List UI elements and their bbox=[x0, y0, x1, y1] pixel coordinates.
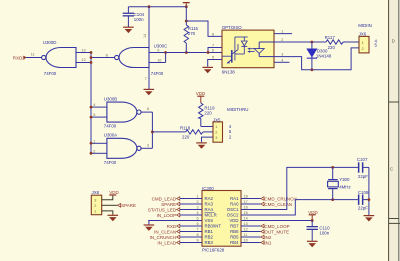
svg-text:15: 15 bbox=[244, 211, 248, 215]
IC right pin numbers 18-10 bbox=[244, 194, 248, 242]
power symbol VDD (MIDITHRU) bbox=[196, 91, 206, 103]
svg-text:220: 220 bbox=[328, 45, 336, 50]
svg-text:11: 11 bbox=[31, 52, 35, 56]
wire input tie vertical bbox=[165, 53, 167, 63]
diode D300 1N4148 bbox=[306, 42, 332, 70]
svg-text:U300A: U300A bbox=[104, 133, 117, 138]
svg-text:100n: 100n bbox=[134, 17, 144, 22]
capacitor C104 bbox=[123, 12, 145, 22]
node C108 right bbox=[368, 198, 371, 201]
svg-text:VDD: VDD bbox=[308, 210, 318, 215]
svg-text:RB3: RB3 bbox=[205, 240, 214, 245]
svg-text:IN2: IN2 bbox=[264, 235, 272, 240]
wire U300B input stub pin 4 bbox=[91, 106, 107, 108]
svg-text:3: 3 bbox=[281, 53, 283, 57]
connector JX5 MIDITHRU bbox=[213, 107, 249, 142]
svg-text:RA0: RA0 bbox=[230, 202, 239, 207]
svg-text:10: 10 bbox=[244, 238, 248, 242]
svg-text:12: 12 bbox=[81, 58, 85, 62]
optocoupler OPTOISO 6N138 bbox=[222, 25, 274, 74]
wire U300D input stub pin 13 bbox=[76, 52, 91, 54]
node rail/VDD/R115 bbox=[185, 5, 188, 8]
svg-text:2: 2 bbox=[197, 200, 199, 204]
node bus/pin4 bbox=[90, 106, 93, 109]
wire opto pin7 drop bbox=[208, 48, 222, 53]
wire U300A input stub pin 1 bbox=[91, 142, 107, 144]
wire U300D input stub pin 12 bbox=[76, 62, 91, 64]
node D300 cathode bbox=[311, 68, 314, 71]
svg-text:RA4: RA4 bbox=[205, 207, 214, 212]
svg-text:IN1: IN1 bbox=[264, 240, 272, 245]
power symbol VDD (IC) bbox=[308, 210, 318, 221]
port RXD2 bbox=[13, 55, 27, 60]
port CMD_CRUNCH bbox=[241, 196, 297, 201]
svg-text:2: 2 bbox=[93, 149, 95, 153]
port SPARE (JX8) bbox=[118, 203, 137, 208]
svg-text:RXD: RXD bbox=[167, 224, 177, 229]
wire U300B output pin 6 bbox=[141, 111, 152, 113]
svg-text:6: 6 bbox=[147, 107, 149, 111]
ground (C104) bbox=[123, 27, 134, 33]
svg-text:SPARE: SPARE bbox=[161, 202, 176, 207]
svg-text:74F00: 74F00 bbox=[104, 124, 117, 129]
svg-text:R117: R117 bbox=[325, 35, 336, 40]
svg-text:13: 13 bbox=[81, 49, 85, 53]
node crystal bottom bbox=[331, 198, 334, 201]
port IN_LEAD bbox=[157, 240, 202, 245]
svg-text:2: 2 bbox=[362, 47, 364, 51]
svg-text:11: 11 bbox=[244, 233, 248, 237]
svg-text:3: 3 bbox=[94, 199, 96, 203]
wire JX8 pin3 to VDD bbox=[102, 196, 113, 200]
op-gate U300C (74F00 mirrored NAND) bbox=[115, 44, 168, 76]
node bus/pin1 bbox=[90, 142, 93, 145]
wire U300B input stub pin 5 bbox=[91, 116, 107, 118]
svg-text:12: 12 bbox=[244, 227, 248, 231]
svg-text:14: 14 bbox=[143, 34, 147, 38]
svg-text:RA3: RA3 bbox=[205, 202, 214, 207]
node tie bbox=[164, 51, 167, 54]
border tick y218.5 bbox=[389, 218, 399, 220]
node rail/C104/U300C pin14 bbox=[148, 5, 151, 8]
border tick y102 bbox=[389, 101, 399, 103]
port CMD_LEAD bbox=[152, 196, 202, 201]
opto internal light arrows bbox=[247, 48, 254, 53]
svg-text:RB6: RB6 bbox=[230, 229, 239, 234]
svg-text:1: 1 bbox=[93, 139, 95, 143]
ground (U300C pin7) bbox=[144, 89, 155, 96]
svg-text:PIC16F628: PIC16F628 bbox=[202, 248, 225, 253]
resistor R115 270 bbox=[184, 7, 198, 53]
node crystal top bbox=[331, 166, 334, 169]
svg-text:JX8: JX8 bbox=[92, 190, 100, 195]
svg-text:1: 1 bbox=[281, 30, 283, 34]
ground (VSS) bbox=[144, 221, 155, 231]
svg-text:CMD_LOOP: CMD_LOOP bbox=[264, 224, 289, 229]
svg-text:9: 9 bbox=[197, 238, 199, 242]
node bus/pin5 bbox=[90, 116, 93, 119]
wire opto pin 1 stub bbox=[274, 33, 292, 35]
svg-text:D: D bbox=[392, 39, 395, 44]
capacitor C110 100n bbox=[307, 221, 331, 241]
wire U300C pin 14 to rail bbox=[148, 7, 150, 48]
wire port to U300D output bbox=[26, 57, 42, 59]
wire R118 to JX5 pin mid bbox=[203, 131, 213, 133]
ground (MIDITHRU) bbox=[196, 142, 207, 149]
node bus/pin12 bbox=[90, 61, 93, 64]
svg-text:IN_CRUNCH: IN_CRUNCH bbox=[150, 235, 177, 240]
svg-text:8: 8 bbox=[197, 233, 199, 237]
node bus/pin8 wire bbox=[90, 56, 93, 59]
wire IC VDD bbox=[241, 220, 312, 222]
wire JX8 pin2 to SPARE bbox=[102, 204, 118, 206]
node D300 anode bbox=[311, 41, 314, 44]
wire to opto pin 8 bbox=[186, 21, 222, 36]
svg-text:10: 10 bbox=[157, 58, 161, 62]
svg-text:7: 7 bbox=[145, 77, 147, 81]
svg-text:IN_LEAD: IN_LEAD bbox=[157, 240, 177, 245]
port IN_CRUNCH bbox=[150, 235, 202, 240]
svg-text:CMD_LEAD: CMD_LEAD bbox=[152, 196, 177, 201]
svg-text:OUT_MUTE: OUT_MUTE bbox=[264, 229, 289, 234]
resistor R118 220 bbox=[180, 126, 203, 140]
svg-text:R118: R118 bbox=[180, 126, 191, 131]
port IN2 bbox=[241, 235, 272, 240]
power symbol VDD (JX8) bbox=[109, 190, 119, 196]
wire C107/C108 to ground bbox=[368, 167, 370, 215]
svg-text:14: 14 bbox=[244, 216, 248, 220]
node outputs tee bbox=[151, 131, 154, 134]
wire opto pin 5 to ground bbox=[208, 60, 222, 67]
svg-text:6: 6 bbox=[212, 49, 214, 53]
wire U300A output pin 3 bbox=[141, 147, 152, 149]
svg-text:MIDIIN: MIDIIN bbox=[358, 23, 372, 28]
wire top VDD rail bbox=[128, 6, 186, 8]
svg-text:220: 220 bbox=[182, 135, 190, 140]
svg-text:VDD: VDD bbox=[229, 218, 238, 223]
node R115 bottom bbox=[185, 51, 188, 54]
svg-text:RA2: RA2 bbox=[205, 196, 214, 201]
svg-text:CMD_CLEAN: CMD_CLEAN bbox=[264, 202, 292, 207]
sheet border inner line bbox=[388, 0, 390, 261]
svg-text:RA1: RA1 bbox=[230, 196, 239, 201]
capacitor C108 22pF bbox=[358, 190, 369, 210]
wire outputs join vertical bbox=[151, 112, 153, 148]
port IN1 bbox=[241, 240, 272, 245]
connector JX6 MIDIIN bbox=[358, 23, 377, 53]
svg-text:OPTOISO: OPTOISO bbox=[222, 25, 243, 30]
svg-text:OSC2: OSC2 bbox=[227, 213, 239, 218]
svg-text:STATUS_LED: STATUS_LED bbox=[148, 207, 177, 212]
svg-text:CMD_CRUNCH: CMD_CRUNCH bbox=[264, 196, 296, 201]
svg-text:6: 6 bbox=[197, 222, 199, 226]
crystal Y300 4MHz bbox=[328, 167, 351, 199]
svg-text:RB7: RB7 bbox=[230, 224, 239, 229]
nand gate U300A (74F00) bbox=[104, 133, 141, 165]
port IN_CLEAN bbox=[154, 229, 202, 234]
svg-text:C108: C108 bbox=[358, 190, 369, 195]
svg-text:IN_CLEAN: IN_CLEAN bbox=[154, 229, 176, 234]
svg-text:1: 1 bbox=[94, 210, 96, 214]
wire OSC1 bbox=[241, 167, 358, 209]
svg-text:RB0/INT: RB0/INT bbox=[205, 224, 222, 229]
wire C104 to ground bbox=[127, 17, 129, 28]
svg-text:RB5: RB5 bbox=[230, 235, 239, 240]
svg-text:1: 1 bbox=[362, 41, 364, 45]
wire JX5 pin bottom to ground bbox=[202, 137, 214, 142]
svg-text:16: 16 bbox=[244, 205, 248, 209]
svg-text:8: 8 bbox=[106, 53, 108, 57]
svg-text:JX6: JX6 bbox=[359, 32, 367, 37]
wire input bus vertical bbox=[90, 53, 92, 154]
svg-text:IN_LOOP: IN_LOOP bbox=[157, 213, 177, 218]
svg-text:C: C bbox=[390, 167, 393, 172]
svg-text:18: 18 bbox=[244, 194, 248, 198]
IC300 PIC16F628 bbox=[202, 186, 241, 253]
ground (opto pin5) bbox=[202, 67, 213, 74]
wire U300C input stub pin 10 bbox=[149, 62, 166, 64]
svg-text:5: 5 bbox=[212, 56, 214, 60]
svg-text:5: 5 bbox=[93, 113, 95, 117]
sheet border outer line bbox=[398, 0, 400, 261]
wire R117 to JX6 bbox=[343, 41, 359, 43]
node bus/pin13 bbox=[90, 51, 93, 54]
wire U300C input stub pin 9 bbox=[149, 52, 166, 54]
wire JX8 pin1 to ground bbox=[102, 211, 113, 215]
node opto pin8 branch bbox=[185, 20, 188, 23]
wire U300C pin 7 to ground bbox=[148, 68, 150, 90]
sheet margin zone bbox=[389, 0, 400, 261]
svg-text:3: 3 bbox=[197, 205, 199, 209]
svg-text:9: 9 bbox=[157, 48, 159, 52]
wire U300A input stub pin 2 bbox=[91, 152, 107, 154]
svg-text:U300D: U300D bbox=[43, 40, 57, 45]
wire outputs to R118 bbox=[152, 131, 185, 133]
node VDD/C110 bbox=[311, 219, 314, 222]
svg-text:5: 5 bbox=[197, 216, 199, 220]
opto internal LED bbox=[254, 42, 274, 57]
wire opto pin 2 to R117 bbox=[274, 41, 326, 43]
wire opto pin 4 stub bbox=[274, 61, 289, 63]
svg-text:VDD: VDD bbox=[109, 190, 119, 195]
IC pin names left bbox=[205, 196, 222, 245]
svg-text:Y300: Y300 bbox=[339, 177, 350, 182]
IC pin names right bbox=[227, 196, 239, 245]
wire R119 to JX5 pin top bbox=[201, 126, 213, 128]
nand gate U300B (74F00) bbox=[104, 96, 141, 128]
svg-text:4: 4 bbox=[281, 58, 283, 62]
port IN_LOOP bbox=[157, 213, 202, 218]
svg-text:SPARE: SPARE bbox=[121, 203, 136, 208]
capacitor C107 22pF bbox=[357, 157, 369, 179]
svg-text:U300C: U300C bbox=[154, 44, 168, 49]
svg-text:74F00: 74F00 bbox=[44, 71, 57, 76]
svg-text:4MHz: 4MHz bbox=[339, 185, 350, 190]
svg-text:2: 2 bbox=[215, 131, 217, 135]
port SPARE (IC) bbox=[161, 202, 202, 207]
ground (C110) bbox=[307, 241, 318, 248]
svg-text:RB2: RB2 bbox=[205, 235, 214, 240]
svg-text:17: 17 bbox=[244, 200, 248, 204]
svg-text:VDD: VDD bbox=[196, 91, 206, 96]
connector JX8 bbox=[91, 190, 101, 215]
ground (crystal caps) bbox=[364, 215, 375, 222]
svg-text:4: 4 bbox=[197, 211, 199, 215]
svg-text:RB4: RB4 bbox=[230, 240, 239, 245]
svg-text:4: 4 bbox=[93, 103, 95, 107]
port CMD_CLEAN bbox=[241, 202, 292, 207]
opto internal photodiode and darlington bbox=[222, 37, 248, 63]
svg-text:220: 220 bbox=[204, 110, 212, 115]
wire opto pin 3 loop bbox=[274, 48, 359, 70]
svg-text:U300B: U300B bbox=[104, 96, 117, 101]
svg-text:3: 3 bbox=[215, 136, 217, 140]
svg-text:7: 7 bbox=[212, 44, 214, 48]
wire VSS to ground bbox=[148, 220, 202, 222]
svg-text:RB1: RB1 bbox=[205, 229, 214, 234]
svg-text:1: 1 bbox=[215, 125, 217, 129]
node pin7/net bbox=[207, 51, 210, 54]
port RXD bbox=[167, 224, 202, 229]
nand gate U300D (74F00 mirrored) bbox=[42, 40, 76, 76]
svg-text:1N4148: 1N4148 bbox=[316, 53, 332, 58]
title block top line bbox=[389, 222, 400, 224]
ground (JX8) bbox=[108, 215, 119, 222]
svg-text:270: 270 bbox=[188, 31, 196, 36]
svg-text:MIDITHRU: MIDITHRU bbox=[227, 107, 248, 112]
resistor R119 220 bbox=[199, 103, 216, 127]
svg-text:22pF: 22pF bbox=[358, 205, 368, 210]
port STATUS_LED bbox=[148, 207, 202, 212]
resistor R117 220 bbox=[325, 35, 344, 50]
svg-text:3: 3 bbox=[147, 143, 149, 147]
svg-text:13: 13 bbox=[244, 222, 248, 226]
svg-text:VSS: VSS bbox=[205, 218, 214, 223]
svg-text:OSC1: OSC1 bbox=[227, 207, 239, 212]
svg-text:8: 8 bbox=[212, 32, 214, 36]
svg-text:MCLR: MCLR bbox=[205, 213, 217, 218]
svg-text:22pF: 22pF bbox=[358, 174, 368, 179]
wire OSC2 bbox=[241, 200, 358, 215]
svg-text:7: 7 bbox=[197, 227, 199, 231]
wire C104 stem bbox=[127, 7, 129, 13]
svg-text:74F00: 74F00 bbox=[151, 71, 164, 76]
power symbol VDD (top rail) bbox=[183, 2, 190, 7]
svg-text:100n: 100n bbox=[319, 230, 329, 235]
IC left pin numbers 1-9 bbox=[197, 194, 199, 242]
port CMD_LOOP bbox=[241, 224, 290, 229]
svg-text:C107: C107 bbox=[357, 157, 368, 162]
wire tied inputs to R115 node bbox=[166, 52, 222, 54]
svg-text:2: 2 bbox=[94, 204, 96, 208]
svg-text:74F00: 74F00 bbox=[104, 160, 117, 165]
svg-text:6N138: 6N138 bbox=[222, 70, 235, 75]
svg-text:1: 1 bbox=[197, 194, 199, 198]
svg-text:2: 2 bbox=[281, 38, 283, 42]
wire U300C output pin 8 to bus bbox=[91, 57, 115, 59]
node bus/pin2 bbox=[90, 152, 93, 155]
port OUT_MUTE bbox=[241, 229, 289, 234]
